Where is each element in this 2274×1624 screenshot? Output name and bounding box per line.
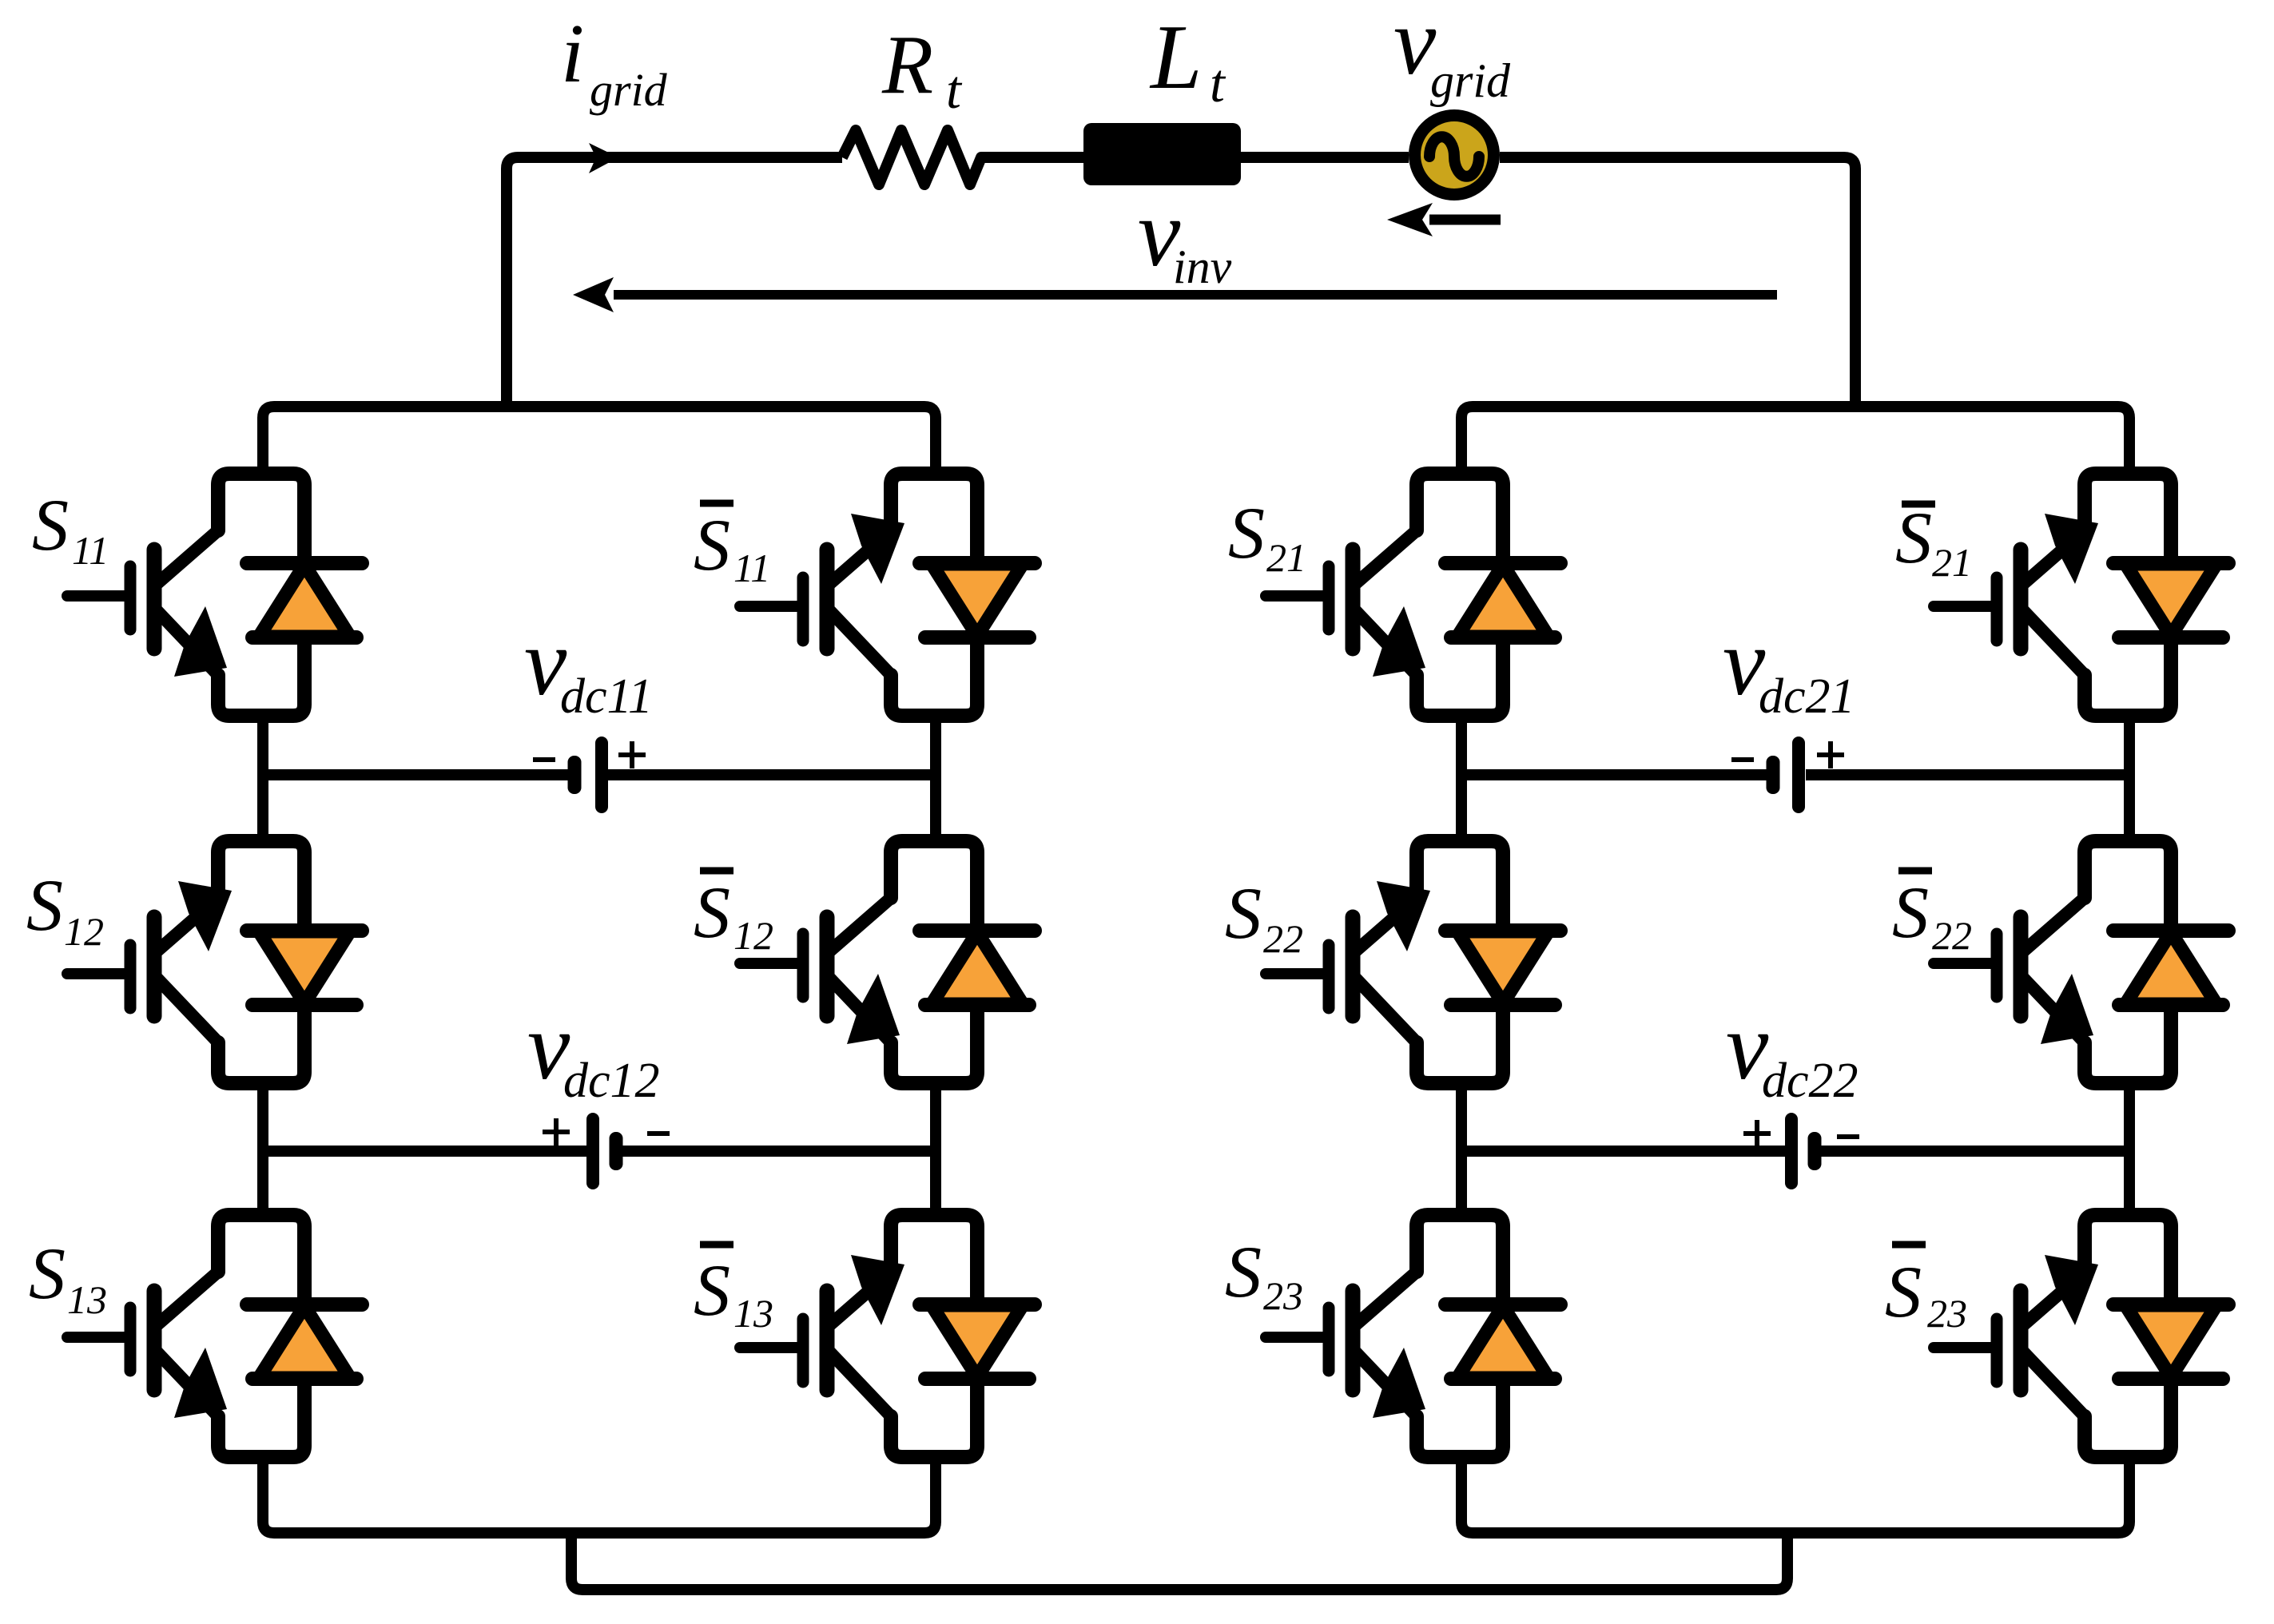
svg-text:22: 22 — [1932, 913, 1972, 958]
svg-text:23: 23 — [1263, 1273, 1303, 1318]
svg-text:S: S — [1225, 872, 1262, 954]
svg-text:S: S — [1892, 872, 1929, 953]
svg-text:21: 21 — [1932, 540, 1972, 585]
svg-text:S: S — [694, 1249, 730, 1331]
svg-text:S: S — [32, 484, 69, 566]
svg-text:11: 11 — [733, 546, 770, 590]
svg-text:t: t — [946, 59, 963, 120]
svg-text:dc12: dc12 — [563, 1054, 660, 1108]
svg-text:13: 13 — [67, 1277, 107, 1322]
svg-text:R: R — [881, 18, 933, 111]
svg-text:grid: grid — [1430, 54, 1511, 107]
svg-text:11: 11 — [72, 528, 109, 573]
svg-text:S: S — [694, 872, 730, 953]
svg-text:S: S — [1895, 497, 1932, 578]
svg-text:dc21: dc21 — [1759, 669, 1855, 724]
svg-text:22: 22 — [1263, 916, 1303, 961]
svg-text:23: 23 — [1927, 1291, 1967, 1336]
svg-text:S: S — [1228, 492, 1265, 574]
svg-text:12: 12 — [733, 913, 773, 958]
svg-text:S: S — [694, 504, 730, 586]
svg-text:S: S — [29, 1233, 66, 1314]
svg-text:dc22: dc22 — [1762, 1054, 1859, 1108]
svg-text:L: L — [1149, 6, 1203, 109]
svg-text:S: S — [26, 864, 63, 946]
svg-text:S: S — [1885, 1251, 1922, 1332]
svg-text:grid: grid — [590, 64, 668, 116]
svg-text:t: t — [1210, 53, 1226, 113]
svg-text:i: i — [561, 6, 584, 100]
svg-text:12: 12 — [64, 909, 104, 954]
svg-text:dc11: dc11 — [560, 669, 653, 724]
svg-text:21: 21 — [1266, 535, 1306, 580]
svg-text:inv: inv — [1173, 240, 1232, 293]
svg-text:S: S — [1225, 1231, 1262, 1312]
svg-text:13: 13 — [733, 1291, 773, 1336]
